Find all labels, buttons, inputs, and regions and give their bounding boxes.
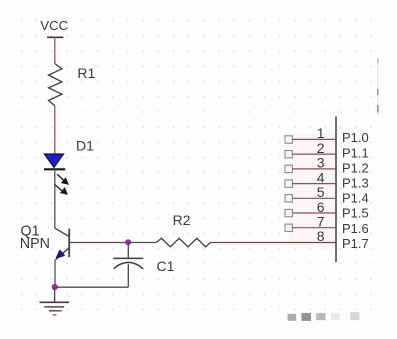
power symbol VCC bar (47, 36, 63, 38)
junction node base-C1 (125, 239, 131, 245)
svg-text:P1.3: P1.3 (342, 176, 369, 191)
transistor Q1 (55, 228, 69, 260)
svg-text:P1.4: P1.4 (342, 191, 369, 206)
wire VCC to R1 (54, 37, 56, 63)
pin 7 (285, 224, 336, 231)
svg-text:1: 1 (317, 125, 325, 141)
svg-text:P1.1: P1.1 (342, 145, 369, 160)
stray vertical mark top right (377, 58, 379, 115)
wire R2 to connector pin 8 (211, 242, 337, 244)
connector body line (335, 117, 337, 263)
svg-text:3: 3 (317, 155, 325, 171)
svg-text:8: 8 (317, 228, 325, 244)
wire junction to R2 (128, 242, 156, 244)
svg-text:D1: D1 (76, 138, 94, 154)
pin 4 (285, 180, 336, 187)
pin 5 (285, 195, 336, 202)
svg-text:VCC: VCC (40, 18, 68, 33)
wire Q1 base to junction (69, 242, 128, 244)
pin 6 (285, 209, 336, 216)
wire junction to C1 bottom (55, 286, 129, 288)
svg-text:P1.5: P1.5 (342, 206, 369, 221)
svg-text:5: 5 (317, 184, 325, 200)
wire D1 to Q1 collector (54, 169, 56, 228)
svg-text:P1.7: P1.7 (342, 236, 369, 251)
svg-text:R1: R1 (77, 65, 95, 81)
svg-text:P1.0: P1.0 (342, 130, 369, 145)
wire Q1 emitter to ground junction (54, 260, 56, 287)
pin 2 (285, 151, 336, 158)
LED D1 (44, 154, 68, 194)
capacitor C1 (113, 243, 143, 288)
svg-text:2: 2 (317, 140, 325, 156)
ground (40, 287, 70, 315)
wire R1 to D1 (54, 106, 56, 154)
resistor R1 (49, 64, 62, 106)
svg-text:R2: R2 (173, 212, 191, 228)
svg-text:7: 7 (317, 214, 325, 230)
svg-text:NPN: NPN (20, 236, 50, 252)
resistor R2 (156, 238, 210, 247)
svg-text:6: 6 (317, 199, 325, 215)
pin 1 (285, 136, 336, 143)
svg-text:C1: C1 (157, 258, 175, 274)
svg-text:4: 4 (317, 169, 325, 185)
svg-text:P1.2: P1.2 (342, 160, 369, 175)
svg-text:P1.6: P1.6 (342, 221, 369, 236)
junction node emitter-ground (52, 284, 58, 290)
pin 3 (285, 165, 336, 172)
